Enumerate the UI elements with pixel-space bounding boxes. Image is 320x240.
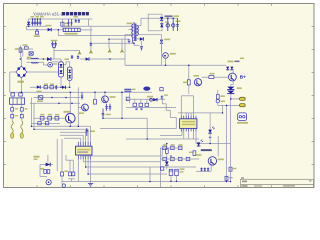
capacitor C30 — [140, 108, 142, 110]
wire to transformer top — [89, 25, 134, 27]
wire bus 181 — [62, 181, 231, 183]
border zone ticks — [3, 3, 314, 188]
diode D9 — [160, 17, 163, 20]
chassis ground 1 — [78, 50, 81, 54]
wire IC1 top bus — [178, 112, 223, 114]
op-amp IC2 — [76, 142, 93, 160]
label fuse marks — [15, 108, 28, 116]
wire output positive — [231, 94, 240, 99]
resistor R30 — [161, 167, 164, 170]
label C1-C4 values — [31, 16, 44, 18]
capacitor C22 — [204, 168, 206, 172]
wire IC1 vdd riser — [180, 96, 182, 116]
wire Q2 collector — [69, 92, 71, 113]
title block — [241, 177, 314, 187]
label D17 — [147, 96, 153, 98]
capacitor CY1 — [51, 40, 58, 48]
resistor R5 — [183, 80, 190, 94]
transistor Q6 — [163, 53, 176, 66]
label Q5 — [228, 61, 240, 63]
resistor R3 — [44, 84, 48, 89]
transistor Q3 — [102, 92, 116, 103]
resistor R12 — [38, 122, 41, 125]
capacitor C16 — [102, 109, 111, 119]
wire output negative — [218, 105, 240, 113]
label LED2 — [196, 149, 212, 156]
wire right vertical — [77, 87, 79, 126]
diode D2 — [48, 28, 52, 32]
wire bus 128 — [100, 128, 176, 130]
resistor R25 — [178, 144, 182, 149]
transistor Q8 — [208, 157, 224, 165]
switch S3 — [20, 115, 23, 121]
wire top filter rail — [29, 18, 93, 20]
connector pin P1 — [240, 97, 246, 100]
wire emi mid rail — [62, 25, 88, 27]
diode D7 — [37, 85, 42, 92]
module box A corner — [23, 49, 33, 57]
fuse F1 — [23, 44, 29, 49]
capacitor C25 — [71, 55, 73, 59]
wire bus 143 — [196, 143, 231, 145]
label D19 — [40, 168, 44, 170]
chassis ground 3 — [108, 49, 111, 53]
wire row 178 — [68, 179, 75, 182]
resistor R24 — [171, 144, 175, 149]
wire primary mid — [129, 29, 134, 31]
wire row 159 — [160, 158, 199, 160]
wire IC2 pin fan 4 — [86, 159, 196, 167]
capacitor C28 series — [124, 89, 135, 92]
resistor R17 — [133, 99, 137, 106]
wire mains rail — [27, 29, 64, 31]
resistor R7 — [37, 96, 43, 102]
mains cord left — [11, 121, 14, 139]
resistor R22 — [166, 144, 169, 154]
wire feedback drop — [129, 92, 131, 103]
wire earth link — [54, 49, 80, 51]
capacitor C6 — [78, 19, 80, 23]
label D9 — [165, 15, 180, 17]
label secondary net — [165, 21, 169, 22]
capacitor C23 — [207, 168, 209, 172]
diode D11 — [140, 37, 144, 41]
diode D10 — [160, 20, 163, 27]
resistor R32 — [229, 167, 236, 171]
svg-text:YAMAHA u31-1: YAMAHA u31-1 — [33, 11, 63, 16]
capacitor C26 — [77, 55, 79, 59]
capacitor C17 — [161, 94, 168, 99]
resistor R15 — [160, 88, 163, 91]
inductor L2 bumps — [27, 58, 48, 65]
wire nest 3 — [60, 132, 86, 142]
capacitor C8 — [55, 85, 57, 90]
transistor Q0 package — [59, 59, 64, 88]
wire IC2 pin fan 5 — [88, 159, 167, 174]
fuse F2 — [11, 108, 14, 115]
label D2 — [46, 25, 52, 27]
wire second filter rail — [27, 26, 47, 30]
resistor R35 — [61, 171, 69, 185]
sheet background — [0, 0, 320, 190]
wire bridge negative — [10, 72, 16, 92]
wire choke output — [80, 29, 92, 31]
capacitor C5 — [74, 16, 79, 23]
mains cord right — [20, 121, 23, 139]
capacitor C31 — [68, 19, 70, 26]
wire Q8 emitter row — [196, 165, 211, 171]
wire IC2 pin fan 1 — [77, 159, 79, 181]
diode D5 in package — [60, 64, 63, 67]
wire secondary lower — [137, 39, 142, 46]
wire left drop 2 — [33, 103, 35, 129]
wire Q2b base stub — [78, 107, 81, 109]
resistor R27 — [171, 157, 175, 160]
module box D control — [125, 35, 162, 66]
chassis ground 2 — [89, 46, 92, 53]
svg-text:B+: B+ — [240, 75, 246, 80]
label Q0 — [65, 59, 70, 61]
capacitor C27 filter — [143, 87, 150, 91]
diode D17 — [153, 98, 157, 101]
wire row 160 — [66, 155, 73, 172]
node LED junction — [209, 133, 212, 143]
sheet title text — [33, 11, 89, 16]
wire base row — [34, 117, 66, 119]
wire primary snubber rail — [58, 30, 133, 36]
capacitor C19 electrolytic — [169, 169, 173, 181]
wire bridge bottom — [20, 78, 22, 92]
diode D18 — [165, 153, 169, 169]
inductor L3 line filter — [10, 98, 25, 108]
capacitor C12 — [176, 18, 181, 31]
wire lower mains rail — [27, 58, 62, 60]
wire nest 1 — [32, 126, 91, 142]
capacitor C10 — [166, 18, 169, 31]
capacitor C3 — [36, 19, 39, 26]
wire IC2 pin fan 2 — [81, 156, 162, 159]
fuse F3 — [20, 108, 23, 115]
node vertical feed — [88, 19, 90, 26]
wire drop 160 — [160, 148, 162, 187]
resistor R33 — [44, 170, 47, 174]
label L1 — [64, 26, 78, 35]
wire IC1 pin drops — [184, 131, 196, 143]
diode D19 — [46, 163, 51, 167]
diode D4 — [80, 57, 125, 60]
transistor Q10 — [46, 180, 51, 185]
wire bus 135 — [160, 130, 182, 135]
meter M1 — [238, 113, 247, 121]
wire IC1 short risers — [186, 113, 191, 116]
resistor R13 — [45, 122, 48, 125]
diode D13 — [226, 67, 229, 70]
wire bus 139 — [126, 138, 199, 140]
wire snubber row — [30, 86, 70, 88]
module box C shield — [148, 14, 162, 31]
capacitor C21 — [200, 168, 202, 172]
label BR1 polarity — [18, 81, 25, 83]
resistor R19 — [145, 99, 149, 106]
LED LED2 — [197, 140, 203, 146]
thermistor RT1 — [15, 46, 22, 67]
resistor R8 — [94, 92, 97, 104]
transistor Q1 — [48, 62, 57, 67]
resistor R1 — [35, 30, 38, 35]
wire mid rows — [30, 98, 80, 104]
transistor Q4 — [194, 75, 202, 86]
wire Q4 base feed — [188, 65, 190, 79]
wire drop 150 — [149, 167, 151, 182]
chassis ground 4 — [120, 49, 123, 53]
wire row 176 — [40, 176, 47, 178]
capacitor CY2 — [54, 42, 57, 48]
resistor R38 — [225, 176, 233, 180]
diode D1 — [27, 19, 30, 25]
diode D6 in package — [60, 70, 63, 73]
resistor R18 — [139, 99, 143, 106]
capacitor C20 electrolytic — [175, 169, 179, 181]
wire Q4 to Q5 base — [202, 76, 229, 78]
wire Y-cap junction — [53, 48, 56, 60]
diode D16 — [227, 87, 242, 93]
wire HV bus — [10, 91, 152, 93]
label T1 — [127, 23, 133, 25]
wire row 164 — [40, 155, 53, 177]
wire drop 57 — [56, 139, 58, 171]
wire row 148 — [160, 147, 182, 149]
resistor R4 — [50, 84, 54, 89]
capacitor C18 — [85, 128, 95, 136]
label R1 — [34, 35, 40, 37]
switch S2 — [11, 115, 14, 121]
resistor R34 — [47, 170, 50, 174]
LED LED1 — [208, 113, 214, 133]
ground IC2 — [88, 159, 93, 186]
wire snubber box — [109, 39, 129, 48]
wire IC2 pin fan 3 — [83, 159, 161, 161]
wire control rail long — [125, 64, 226, 66]
wire Q8 base — [217, 136, 219, 157]
resistor R20 — [216, 90, 225, 99]
resistor R10 — [48, 114, 52, 120]
wire left drop 1 — [31, 98, 33, 127]
diode D5b in package — [68, 70, 71, 73]
inductor L1 common-mode choke — [63, 28, 80, 31]
bridge rectifier BR1 — [16, 66, 27, 78]
resistor R28 — [178, 157, 182, 160]
wire bridge positive rail — [27, 71, 59, 73]
diode D12 — [160, 39, 170, 53]
label output plus — [240, 58, 246, 80]
diode D15 — [227, 81, 234, 90]
resistor R36 — [69, 172, 72, 176]
plug boxes — [11, 93, 22, 96]
diode D8 — [62, 86, 65, 89]
wire sense rail 1 — [226, 105, 228, 181]
wire staircase — [162, 96, 176, 129]
opto U3 — [150, 98, 153, 101]
wire nest 2 — [34, 129, 88, 142]
resistor R9 — [40, 114, 44, 120]
transformer T1 — [132, 22, 139, 43]
wire bus 107 — [126, 107, 176, 109]
wire nest 5 — [64, 138, 81, 142]
resistor R37 — [72, 172, 75, 176]
wire gate rail — [52, 62, 70, 65]
wire center drop — [121, 92, 123, 118]
label M1 — [237, 122, 248, 124]
wire drop 162 — [161, 148, 163, 156]
label C19 C20 — [180, 168, 185, 172]
resistor R16 — [126, 97, 130, 100]
capacitor C7 — [90, 26, 93, 46]
wire center bus 1 — [103, 117, 147, 119]
resistor R11 — [55, 114, 59, 120]
capacitor C14 — [105, 104, 107, 111]
resistor R29 — [186, 157, 190, 160]
capacitor C13 — [140, 46, 143, 50]
capacitor C11 — [172, 18, 175, 31]
label 220V — [34, 156, 40, 160]
wire emitter row — [32, 122, 61, 124]
capacitor C24 — [81, 92, 83, 99]
thermistor R21 — [216, 99, 225, 105]
transistor Q11 — [62, 184, 65, 187]
wire secondary top — [137, 18, 178, 25]
capacitor C15 — [109, 104, 111, 111]
wire Q2 emitter — [69, 123, 71, 126]
resistor R2 — [61, 19, 69, 28]
diode D6b in package — [68, 75, 71, 78]
wire drop 62 — [61, 139, 63, 172]
switch SW1 — [27, 52, 33, 59]
op-amp IC1 PWM — [180, 116, 197, 132]
resistor R31 — [189, 151, 196, 156]
resistor R23 — [163, 144, 167, 149]
diode D14 — [230, 67, 233, 74]
capacitor C29 — [135, 108, 137, 110]
resistor R26 — [163, 157, 167, 160]
capacitor C1 — [31, 19, 34, 26]
transistor Q2 power — [64, 111, 76, 123]
capacitor C9 — [128, 40, 131, 43]
wire primary bottom — [92, 43, 139, 45]
resistor R6 — [209, 73, 215, 79]
capacitor C32 — [71, 19, 73, 26]
transistor Q2b — [79, 104, 88, 114]
wire sense rail 2 — [230, 99, 232, 182]
capacitor C2 — [34, 19, 37, 26]
diode D3 — [47, 57, 51, 61]
transistor Q0b package — [67, 62, 72, 88]
connector pin P2 — [240, 104, 246, 107]
wire center drop 2 — [146, 118, 148, 139]
transistor Q5 — [229, 73, 237, 81]
wire feedback row — [126, 98, 165, 100]
wire IC1 riser 2 — [181, 96, 193, 116]
wire nest 4 — [60, 135, 83, 142]
capacitor C4 — [39, 19, 42, 26]
